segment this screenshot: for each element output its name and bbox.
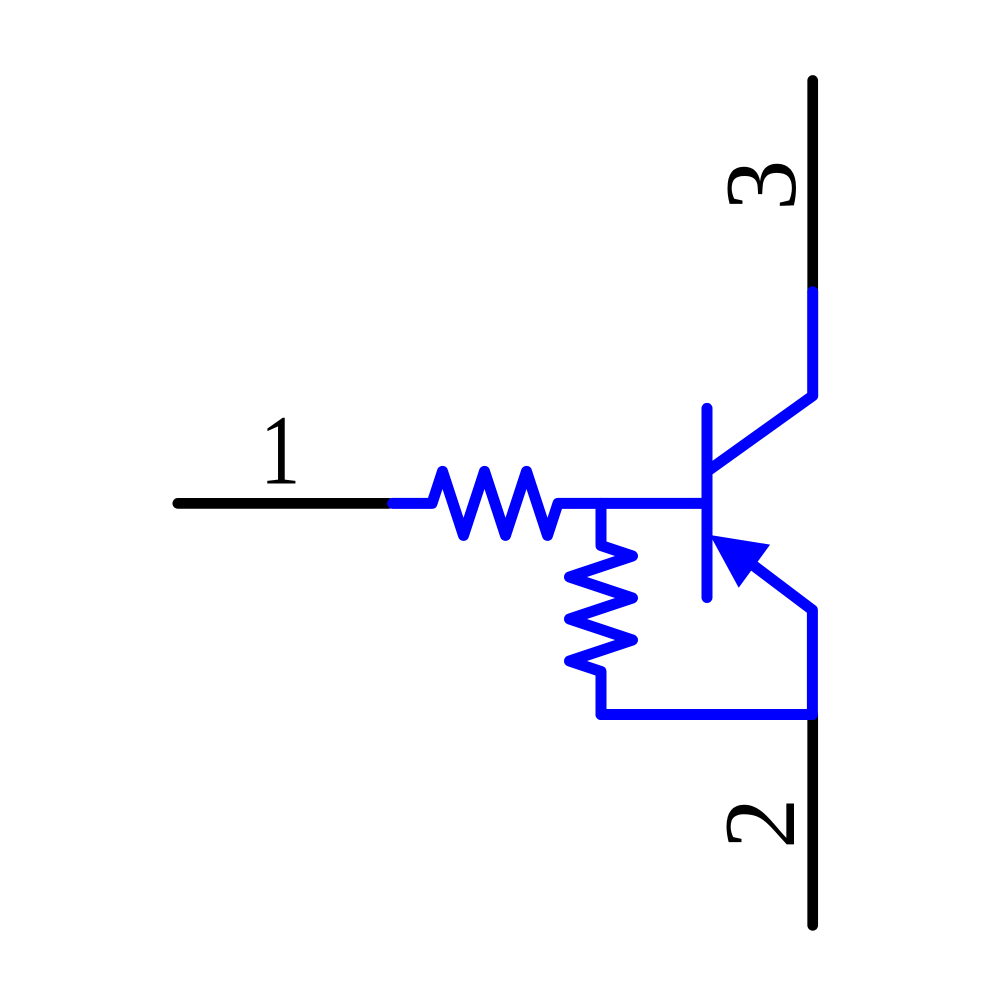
pin 1 label xyxy=(260,394,300,506)
pin 2 label xyxy=(704,798,817,849)
resistor R2 (base-emitter shunt resistor) xyxy=(570,503,633,714)
pin 2 lead xyxy=(807,715,818,925)
transistor Q1 emitter lead xyxy=(754,566,812,714)
wire from R2 bottom to emitter node xyxy=(601,709,812,720)
svg-text:2: 2 xyxy=(704,798,817,849)
transistor Q1 base bar xyxy=(702,408,713,597)
transistor Q1 collector lead xyxy=(707,292,813,472)
pin 3 label xyxy=(705,160,818,211)
resistor R1 (series base resistor) with base wire xyxy=(393,471,707,535)
pin 3 lead xyxy=(807,81,818,293)
svg-text:3: 3 xyxy=(705,160,818,211)
transistor Q1 emitter arrow (PNP, points toward base) xyxy=(710,535,770,588)
svg-text:1: 1 xyxy=(260,394,300,506)
pin 1 lead xyxy=(178,498,389,509)
